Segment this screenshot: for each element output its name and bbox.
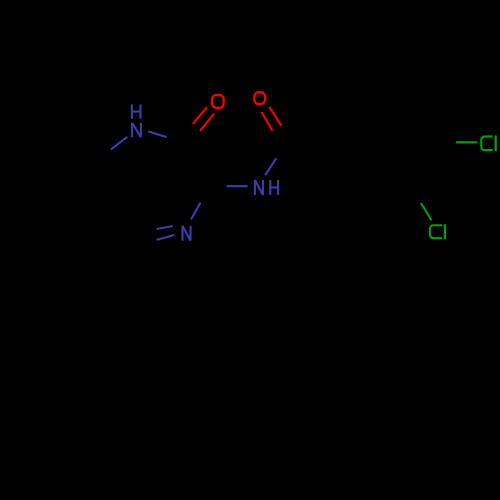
wire Nam-Cam (dark half)	[276, 141, 288, 158]
label Cl2 (meta chlorine)	[430, 224, 445, 239]
label N1	[132, 123, 141, 137]
label O1 (ring carbonyl)	[212, 95, 224, 108]
wire N4=C5 main blue half	[157, 235, 175, 240]
wire N1-C2 blue half	[148, 131, 166, 137]
wire Cam=Oam second red half	[262, 112, 273, 131]
phenyl ring C2'-C3'	[360, 185, 410, 188]
wire C2=O1 main red half	[200, 114, 214, 131]
phenyl ring inner aromatic lines	[346, 148, 367, 183]
phenyl ring C4'-C5'	[409, 99, 435, 142]
wire Cam-C1'	[288, 141, 335, 143]
phenyl ring C1'-C2'	[335, 143, 361, 186]
wire C3-Nam (dark half)	[211, 184, 227, 187]
label H of ring N1-H	[132, 104, 141, 118]
wire C2=O1 main	[185, 114, 214, 143]
wire C3'-Cl2 dark half	[411, 186, 422, 203]
wire C2=O1 second red half	[193, 107, 207, 124]
wire C2=O1 second	[179, 107, 208, 138]
benzo ring C6-C7	[0, 206, 42, 236]
wire C5-C5a	[90, 214, 140, 245]
phenyl ring C5'-C6'	[359, 98, 409, 101]
wire C3-Nam blue half	[227, 185, 248, 187]
benzo ring C5a-C6	[43, 214, 90, 236]
wire C2-C3	[185, 143, 211, 186]
wire C3-N4 blue half	[191, 203, 201, 220]
wire Cam=Oam main (dark half)	[281, 126, 288, 142]
wire Cam=Oam main red half	[269, 107, 281, 126]
label N4	[183, 226, 191, 241]
label Cl1 (para chlorine)	[481, 135, 495, 151]
wire C3'-Cl2 green half	[421, 203, 432, 220]
benzo ring inner aromatic lines	[47, 208, 85, 225]
wire Cam=Oam second (dark half)	[273, 131, 280, 148]
wire N4=C5 second	[141, 226, 173, 235]
wire Nam-Cam blue half	[265, 158, 276, 175]
phenyl ring C3'-C4'	[411, 142, 436, 186]
benzo ring C9-C9a	[52, 132, 94, 162]
label O of amide carbonyl	[254, 92, 265, 104]
wire N1-C9a blue half	[111, 137, 127, 150]
wire C3-N4	[191, 186, 211, 220]
benzo ring C8-C9	[5, 132, 52, 154]
benzo ring C7-C8	[0, 154, 5, 206]
label N of amide NH	[255, 180, 263, 195]
wire C9a-N1	[94, 150, 110, 163]
wire N4=C5 main	[139, 235, 174, 245]
label H of amide NH	[270, 180, 278, 195]
wire C4'-Cl1 dark half	[435, 141, 456, 143]
phenyl ring C6'-C1'	[335, 100, 360, 144]
wire N1-C2	[136, 130, 185, 143]
benzo ring C9a-C5a	[90, 162, 95, 214]
wire N4=C5 second blue half	[157, 226, 173, 229]
wire C4'-Cl1 green half	[456, 141, 477, 143]
